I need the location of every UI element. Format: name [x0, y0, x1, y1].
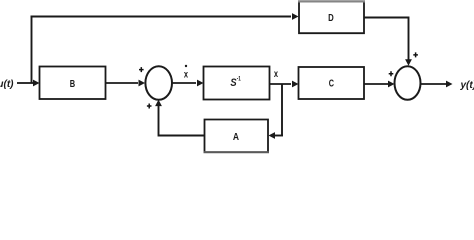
grey bottom edge of A — [204, 151, 270, 153]
wire summer 2 to output — [421, 83, 447, 85]
svg-text:C: C — [329, 77, 335, 88]
svg-text:x: x — [274, 68, 278, 79]
grey top edge of D — [298, 0, 365, 2]
wire C to summer 2 — [364, 83, 388, 85]
plus sign S1 lower input — [147, 104, 152, 109]
arrow into summer 1 — [139, 80, 146, 87]
svg-text:D: D — [328, 12, 334, 23]
arrow into B — [33, 80, 40, 87]
plus sign S2 left input — [389, 71, 394, 76]
wire input to B — [17, 82, 33, 84]
wire D to summer 2 — [364, 17, 409, 19]
wire branch down to A — [275, 135, 283, 137]
arrow output — [446, 81, 453, 88]
arrow into A — [269, 132, 276, 139]
block B — [40, 67, 106, 100]
wire integrator to C — [270, 83, 292, 85]
arrow up into summer 1 — [155, 100, 162, 107]
arrow into summer 2 — [388, 81, 395, 88]
svg-text:u(t): u(t) — [0, 79, 14, 90]
svg-text:-1: -1 — [237, 76, 241, 83]
arrow into D — [292, 13, 299, 20]
wire A to summer 1 — [159, 135, 205, 137]
block D — [299, 1, 364, 33]
svg-text:y(t): y(t) — [460, 80, 474, 91]
arrow into C — [292, 81, 299, 88]
plus sign S2 top input — [413, 52, 418, 57]
wire B to summer 1 — [106, 82, 139, 84]
arrow into integrator — [197, 80, 204, 87]
block C — [299, 67, 365, 99]
node branch to A — [281, 84, 283, 136]
arrow down into summer 2 — [405, 59, 412, 66]
svg-text:S: S — [230, 77, 236, 89]
summing junction S1 — [145, 66, 172, 100]
svg-text:A: A — [233, 131, 239, 142]
block A — [205, 120, 269, 153]
plus sign S1 upper input — [139, 67, 144, 72]
node branch to D — [31, 17, 33, 84]
svg-text:x: x — [184, 68, 188, 79]
summing junction S2 — [395, 66, 421, 100]
wire summer 1 to integrator — [171, 82, 196, 84]
wire branch top to D — [31, 16, 292, 18]
svg-text:B: B — [70, 78, 75, 89]
integrator block S^-1 — [204, 67, 270, 100]
